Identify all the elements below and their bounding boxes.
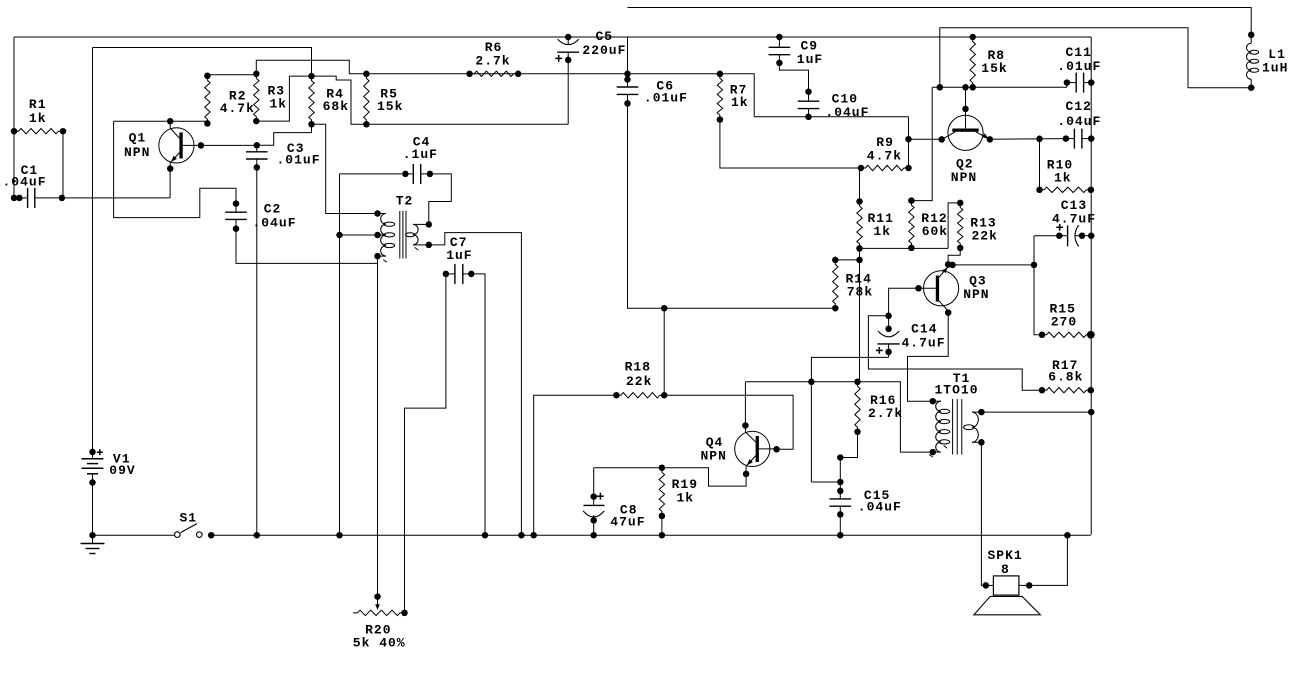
svg-text:NPN: NPN (963, 287, 989, 302)
svg-text:S1: S1 (180, 510, 198, 525)
svg-text:2.7k: 2.7k (868, 406, 903, 421)
svg-text:C12: C12 (1066, 99, 1092, 114)
node C6/R18 branch (661, 305, 668, 312)
wire R3 bottom jog up to R4 top row (256, 76, 289, 121)
resistor R9 (861, 165, 909, 170)
svg-text:Q1: Q1 (129, 131, 147, 146)
resistor R12 (909, 201, 914, 248)
wire C10 bottom row (754, 116, 908, 118)
wire T2 right bottom to ground (429, 233, 522, 536)
svg-text:R18: R18 (625, 360, 651, 375)
capacitor C15 (837, 454, 844, 461)
svg-text:NPN: NPN (701, 448, 727, 463)
wire ground row main (211, 534, 1091, 536)
wire Q4 emitter loop to R19 row (594, 468, 746, 486)
svg-text:1k: 1k (270, 97, 288, 112)
svg-text:.04uF: .04uF (858, 500, 902, 515)
wire Q1 base row (201, 144, 257, 146)
svg-text:5k 40%: 5k 40% (353, 636, 406, 651)
resistor R6 (470, 71, 518, 76)
wire R4 bottom right to T2 top pin (312, 124, 378, 213)
svg-text:.01uF: .01uF (644, 90, 688, 105)
wire Q3 emitter row to C13 jog (953, 264, 1035, 266)
svg-text:4.7uF: 4.7uF (1052, 212, 1096, 227)
capacitor C10 (808, 92, 810, 102)
wire R16 bottom jog to C15 (840, 432, 857, 458)
wire T1 right bottom to speaker (981, 442, 985, 585)
wire left edge vertical x14 (13, 37, 15, 131)
svg-text:78k: 78k (847, 285, 873, 300)
wire C4 right jog to T2 right top (429, 174, 452, 225)
wire C13 left jog down to R15 (1034, 236, 1042, 335)
resistor R14 (833, 260, 838, 308)
wire R7 bottom to R9 left (720, 120, 861, 168)
node ground C8 (590, 532, 597, 539)
svg-text:270: 270 (1051, 315, 1077, 330)
wire R9 left down to R11 top (859, 168, 861, 202)
wire C2 bottom row (236, 229, 378, 264)
ground (89, 532, 96, 539)
wire x339 C4 left vertical (339, 174, 341, 535)
resistor R19 (659, 468, 664, 516)
capacitor C1 (14, 197, 28, 199)
transformer T1 (930, 398, 937, 405)
wire Q3 collector to T1 top pin (908, 313, 949, 402)
svg-text:09V: 09V (109, 463, 135, 478)
resistor R15 (1042, 332, 1091, 337)
svg-text:1TO10: 1TO10 (935, 383, 979, 398)
resistor R10 (1039, 139, 1041, 190)
svg-text:6.8k: 6.8k (1048, 370, 1083, 385)
wire R4 bottom to C3 top jog (257, 124, 312, 145)
wire top rail y37 from x14 to x1091 (14, 36, 1091, 38)
wire C8 top feed (593, 468, 595, 497)
speaker SPK1 (983, 582, 990, 589)
capacitor C9 (776, 34, 783, 41)
svg-text:C5: C5 (596, 29, 614, 44)
svg-text:C11: C11 (1066, 45, 1092, 60)
svg-text:15k: 15k (377, 99, 403, 114)
potentiometer R20 (353, 610, 405, 615)
resistor R18 (616, 393, 664, 398)
wire Q3 base to C14 top (889, 288, 919, 316)
svg-text:C13: C13 (1061, 198, 1087, 213)
resistor R17 (1042, 388, 1091, 393)
capacitor C4 (340, 173, 414, 175)
svg-text:4.7k: 4.7k (867, 149, 902, 164)
wire R9 junction to Q2 collector (909, 138, 942, 140)
capacitor C13 (1034, 235, 1059, 237)
svg-text:1k: 1k (29, 111, 47, 126)
wire C3 bottom to ground row (256, 167, 258, 535)
wire R4 top step to R5 bottom (312, 76, 367, 124)
node ground C7 right (482, 532, 489, 539)
transformer T2 (374, 210, 381, 217)
node ground C15 (837, 532, 844, 539)
svg-text:2.7k: 2.7k (475, 54, 510, 69)
node ground R19 (659, 532, 666, 539)
node ground x339 (336, 532, 343, 539)
svg-text:60k: 60k (922, 224, 948, 239)
transistor Q4 (735, 431, 770, 466)
wire y308 row to R14 bottom (664, 307, 835, 309)
transistor Q3 (924, 271, 959, 306)
wire Q1 collector to C2 path (114, 121, 236, 217)
resistor R7 (717, 74, 722, 120)
wire x857 down to R16 top (859, 260, 861, 382)
svg-text:.04uF: .04uF (825, 105, 869, 120)
wire C7 right to ground (471, 274, 485, 535)
wire R13 bottom jog to Q3 emitter (948, 248, 960, 265)
wire C14 bottom to x811 down (811, 357, 888, 482)
svg-text:1k: 1k (873, 224, 891, 239)
capacitor C14 (885, 313, 892, 320)
svg-text:47uF: 47uF (610, 515, 645, 530)
wire R18 right to Q4 base (664, 395, 793, 449)
svg-text:.04uF: .04uF (253, 215, 297, 230)
wire second rail y47.5 x92.5-311.5 (93, 48, 312, 77)
capacitor C8 (590, 493, 597, 500)
wire Q4 collector row to T1 bottom (744, 382, 746, 426)
inductor L1 (1248, 32, 1255, 39)
wire Q1 collector row y121 (114, 120, 208, 122)
wire ground row left segment (93, 534, 175, 536)
svg-text:SPK1: SPK1 (988, 548, 1023, 563)
wire Q2 collector loop x940 up to L1 row (940, 28, 1251, 88)
node ground speaker (1064, 532, 1071, 539)
resistor R11 (857, 202, 862, 249)
wire T2 left bottom down to R20 wiper (377, 256, 379, 596)
T1 phase marks (929, 454, 932, 457)
svg-text:8: 8 (1001, 562, 1010, 577)
svg-text:NPN: NPN (124, 145, 150, 160)
svg-text:22k: 22k (626, 374, 652, 389)
svg-text:C14: C14 (911, 321, 937, 336)
svg-text:4.7uF: 4.7uF (902, 335, 946, 350)
wire R8 bottom row y87 (932, 86, 1067, 88)
wire R13 top jog (948, 203, 960, 249)
wire R14 top jog (859, 248, 861, 260)
wire R7 top jog to C10 bottom row (720, 74, 754, 117)
switch S1 (175, 532, 181, 538)
node ground C3 (254, 532, 261, 539)
resistor R2 (205, 76, 210, 124)
wire C7 left down to R20 right (405, 274, 446, 613)
wire C9 bottom jog to C10 top (779, 63, 808, 92)
wire x932 down to R12 top (911, 87, 932, 200)
svg-text:1uF: 1uF (797, 52, 823, 67)
resistor R5 (364, 74, 369, 125)
svg-text:.1uF: .1uF (403, 147, 438, 162)
wire R5 bottom row to C5 (366, 123, 568, 125)
wire R3 top jog to R5 top (256, 60, 366, 74)
wire R18 left down to ground row (534, 395, 617, 535)
wire branch x664 down to R18 right (663, 308, 665, 395)
wire x92.5 battery feed vertical (92, 48, 94, 452)
wire speaker right to ground row (1029, 535, 1067, 585)
svg-text:1uF: 1uF (446, 248, 472, 263)
wire top loop y7.5 to L1 (628, 8, 1252, 35)
svg-text:4.7k: 4.7k (220, 101, 255, 116)
svg-text:1uH: 1uH (1262, 61, 1288, 76)
wire C1 right to Q1 emitter (62, 197, 170, 199)
wire T1 right top to x1091 (981, 411, 1091, 413)
capacitor C3 (256, 145, 258, 152)
capacitor C7 (446, 273, 455, 275)
capacitor C12 (1066, 138, 1075, 140)
wire C14 top to R17 jog (868, 316, 1042, 390)
resistor R16 (855, 382, 860, 432)
node R9 right junction (905, 136, 912, 143)
wire x1091 vertical (1090, 37, 1092, 535)
transistor Q2 (948, 115, 983, 150)
wire R1 right to C1 node (62, 131, 64, 198)
battery V1 (89, 449, 96, 456)
svg-text:R1: R1 (29, 97, 47, 112)
svg-text:.04uF: .04uF (1057, 114, 1101, 129)
svg-text:T2: T2 (396, 193, 414, 208)
wire Q2 emitter row to C12 (990, 138, 1066, 141)
wire T2 center tap (340, 234, 378, 236)
svg-text:1k: 1k (731, 95, 749, 110)
capacitor C5 (565, 34, 572, 41)
capacitor C6 (627, 37, 629, 74)
wire R2 top to R3 top (207, 74, 256, 76)
resistor R1 (14, 129, 63, 134)
resistor R4 (309, 76, 314, 124)
wire R11/R12 bottom row (860, 247, 949, 249)
T2 phase marks (383, 260, 387, 263)
svg-text:1k: 1k (1054, 171, 1072, 186)
svg-text:.04uF: .04uF (3, 175, 47, 190)
svg-text:.01uF: .01uF (1057, 59, 1101, 74)
svg-text:22k: 22k (972, 229, 998, 244)
svg-text:220uF: 220uF (582, 43, 626, 58)
resistor R3 (254, 74, 259, 121)
wire R5 top row to R7 top (366, 73, 720, 75)
resistor R8 (970, 37, 975, 87)
svg-text:.01uF: .01uF (277, 152, 321, 167)
svg-text:1k: 1k (677, 491, 695, 506)
node ground T2 sec (518, 532, 525, 539)
wire C6 bottom down to y308 row (628, 103, 665, 308)
node ground R18 left (530, 532, 537, 539)
svg-text:NPN: NPN (951, 170, 977, 185)
capacitor C11 (1066, 83, 1068, 88)
capacitor C2 (235, 204, 237, 213)
transistor Q1 (159, 128, 194, 163)
svg-text:15k: 15k (981, 61, 1007, 76)
svg-text:68k: 68k (323, 99, 349, 114)
resistor R13 (958, 203, 963, 248)
